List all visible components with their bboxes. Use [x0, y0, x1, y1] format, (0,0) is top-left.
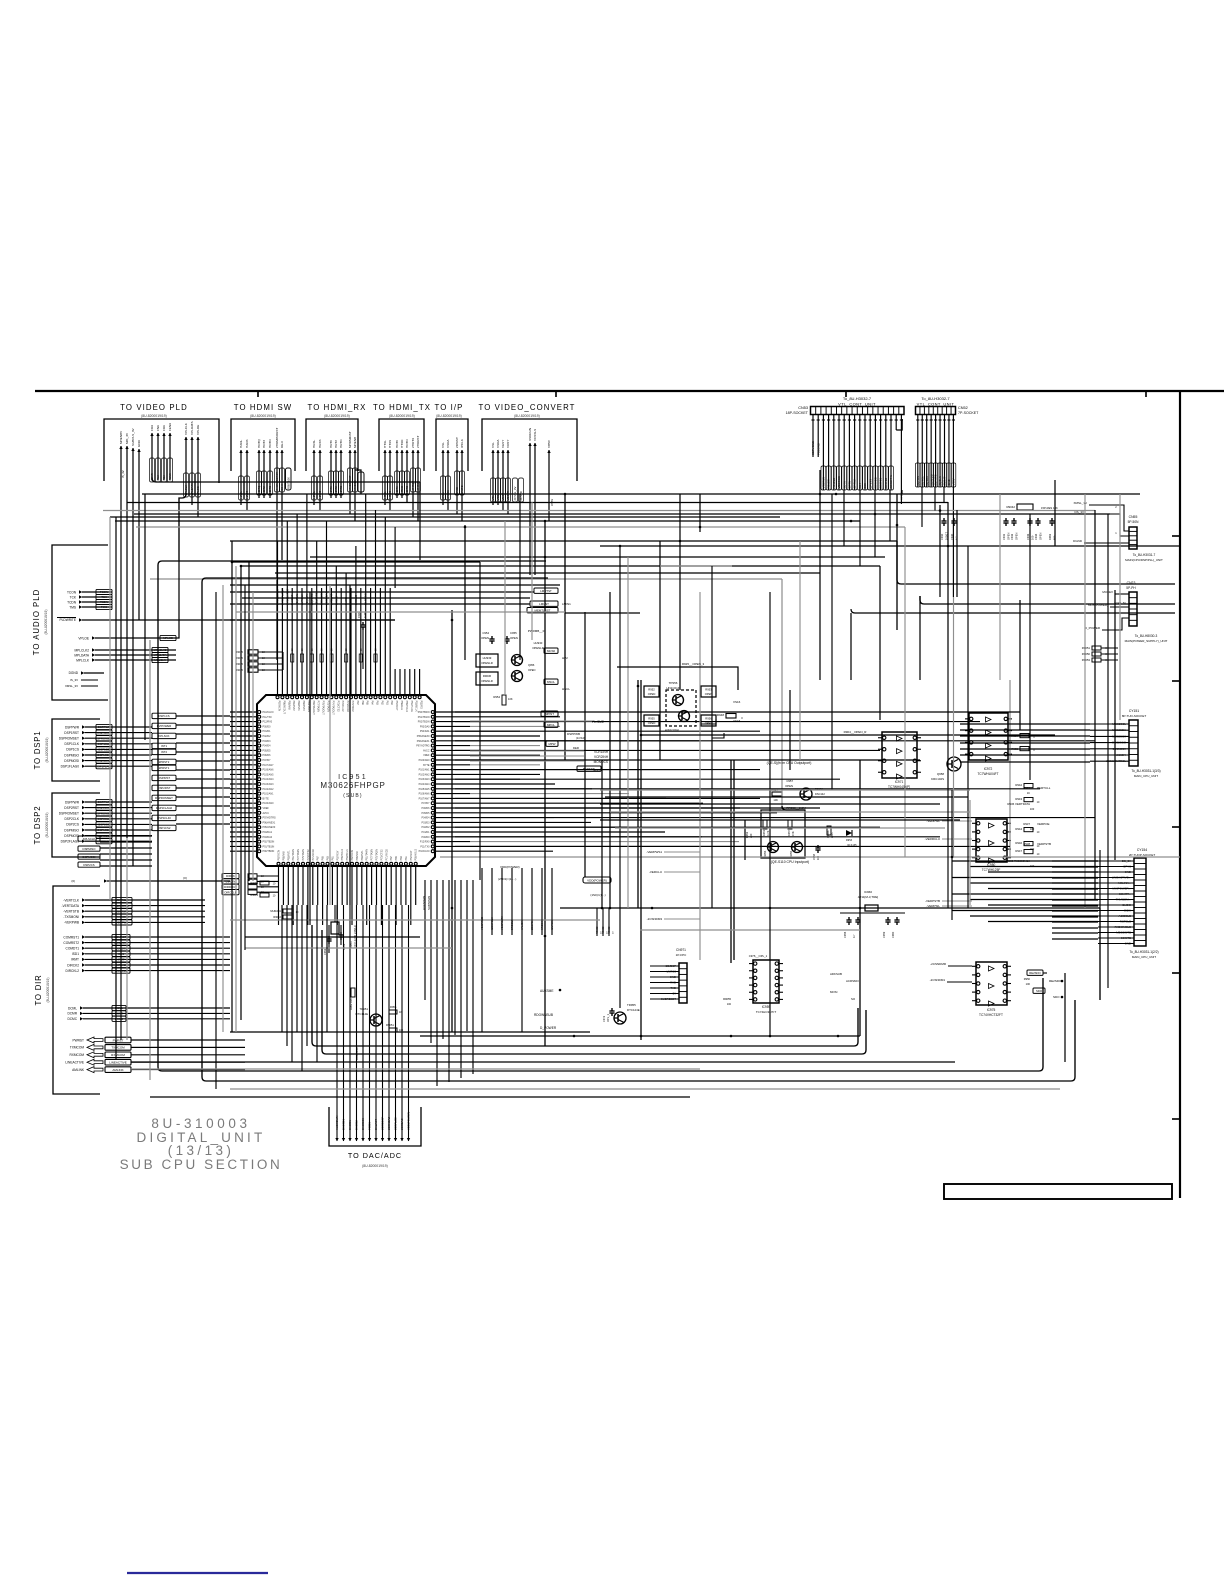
svg-text:VSDRUN: VSDRUN: [822, 477, 826, 489]
svg-text:DTC124E: DTC124E: [627, 1008, 640, 1012]
op-amp region main CPU IC951 M30626FHPGP body: [257, 695, 435, 866]
svg-text:1K: 1K: [1027, 791, 1030, 795]
svg-text:HRTD: HRTD: [339, 486, 343, 494]
wire rows TO DIR group1: [61, 897, 205, 925]
svg-text:HDTD: HDTD: [405, 439, 409, 448]
svg-text:P81/TA4IN: P81/TA4IN: [366, 849, 369, 861]
transistor block TP956 dashed: [644, 681, 867, 734]
transistor Q958: [931, 757, 961, 781]
wire bundle IC951 top to bus: [276, 588, 391, 669]
svg-text:P04/D4: P04/D4: [263, 745, 272, 748]
wire rows TO AUDIO PLD group1: [67, 589, 112, 609]
border right line: [1172, 391, 1180, 1198]
svg-text:2CSPB1: 2CSPB1: [879, 477, 883, 488]
svg-text:P96/ANEX1: P96/ANEX1: [263, 821, 276, 824]
svg-text:(E)CLK: (E)CLK: [938, 476, 942, 485]
svg-text:HTXS: HTXS: [388, 491, 392, 499]
svg-text:VCR2INH: VCR2INH: [594, 755, 609, 759]
svg-text:CN52: CN52: [958, 406, 968, 410]
resistor network R9042: [1006, 504, 1057, 510]
svg-text:VERTCLL: VERTCLL: [1037, 786, 1051, 790]
svg-text:TXMCOM: TXMCOM: [111, 1046, 125, 1050]
svg-text:VDD(POWER): VDD(POWER): [407, 1112, 411, 1130]
svg-text:(8U-8200019/19): (8U-8200019/19): [45, 813, 49, 838]
svg-text:P90/TB0IN: P90/TB0IN: [418, 711, 430, 714]
svg-text:RXMCOM: RXMCOM: [111, 1053, 125, 1057]
svg-text:10K: 10K: [508, 697, 513, 701]
svg-text:HADL: HADL: [239, 439, 243, 448]
svg-text:P72/CLK2: P72/CLK2: [341, 701, 344, 713]
svg-text:P82/INT0: P82/INT0: [302, 701, 305, 712]
svg-text:IS_3V: IS_3V: [121, 470, 125, 478]
svg-text:P02/D2: P02/D2: [263, 735, 272, 738]
svg-text:To_8U-H8030-3: To_8U-H8030-3: [1135, 634, 1158, 638]
svg-text:P107/AN7: P107/AN7: [263, 764, 275, 767]
svg-text:P60: P60: [390, 701, 393, 706]
svg-text:CPVSS: CPVSS: [868, 479, 872, 489]
svg-text:P07/D7: P07/D7: [263, 759, 272, 762]
svg-text:0.47: 0.47: [363, 612, 367, 618]
boxed label MSCL: [544, 679, 558, 684]
svg-text:To_8U-H3031-1(3/3): To_8U-H3031-1(3/3): [1131, 769, 1160, 773]
boxed label LMUTST: [527, 588, 558, 613]
svg-text:(8U-8200019/19): (8U-8200019/19): [389, 414, 415, 418]
svg-text:DSP1CLK: DSP1CLK: [64, 742, 79, 746]
svg-text:(0): (0): [183, 876, 187, 880]
svg-text:C955: C955: [510, 631, 517, 635]
svg-text:P106/AN6: P106/AN6: [419, 793, 431, 796]
svg-text:R9051: R9051: [1082, 646, 1091, 650]
wire rows VCR INH to chip: [470, 721, 592, 761]
svg-text:(E)DAT: (E)DAT: [943, 476, 947, 485]
svg-text:P02/D2: P02/D2: [422, 826, 431, 829]
bus rounded loop outer: [158, 561, 1043, 1071]
svg-text:DSP2RST: DSP2RST: [64, 806, 79, 810]
svg-text:BYTE: BYTE: [423, 764, 430, 767]
svg-text:DSP2FLAG0: DSP2FLAG0: [61, 840, 80, 844]
svg-text:P86/XCOUT: P86/XCOUT: [282, 701, 285, 715]
svg-text:P06/D6: P06/D6: [263, 754, 272, 757]
capacitor C966 0.47: [357, 611, 367, 669]
svg-text:P66: P66: [361, 701, 364, 706]
svg-text:MSCL: MSCL: [547, 680, 555, 684]
svg-text:(E)SDA: (E)SDA: [925, 476, 929, 486]
svg-text:DSP1RST: DSP1RST: [64, 731, 79, 735]
svg-text:R9036: R9036: [483, 674, 492, 678]
header label TO HDMI SW: [234, 403, 293, 418]
svg-text:-VEDPSTB: -VEDPSTB: [925, 899, 940, 903]
svg-text:4.7: 4.7: [852, 934, 856, 938]
wire bend VIDEO PLD C down: [179, 494, 198, 560]
svg-text:(E)AVDD: (E)AVDD: [929, 474, 933, 485]
svg-text:OPEN: OPEN: [528, 668, 535, 672]
svg-text:P55/HOLD: P55/HOLD: [405, 701, 408, 713]
svg-text:2CSOPTN: 2CSOPTN: [889, 475, 893, 488]
wire rows DGND group: [65, 671, 104, 688]
resistor array R9015 block: [235, 650, 283, 672]
svg-text:HDT0: HDT0: [395, 440, 399, 448]
long verticals extra left: [110, 517, 223, 1089]
svg-text:MDSPCLK: MDSPCLK: [490, 917, 494, 930]
svg-text:TCON: TCON: [100, 590, 108, 594]
hex buffer IC959 TC74HC367: [749, 954, 783, 1014]
svg-text:8P-TUO-SOCKET: 8P-TUO-SOCKET: [1122, 714, 1147, 718]
svg-text:HSCL: HSCL: [562, 687, 570, 691]
long verticals extra mid: [310, 494, 628, 1008]
svg-text:D_POWER: D_POWER: [1085, 626, 1101, 630]
wire bundle IC951 bottom to DAC/ADC: [335, 905, 411, 1141]
svg-text:R956: R956: [390, 1005, 397, 1009]
svg-text:Q956: Q956: [528, 663, 535, 667]
svg-text:HDTQ: HDTQ: [257, 485, 261, 494]
svg-text:DSPMISO: DSPMISO: [98, 753, 112, 757]
svg-text:To_8U-H3031-7: To_8U-H3031-7: [1133, 553, 1156, 557]
svg-text:HTXL: HTXL: [383, 440, 387, 448]
bracket TO DAC/ADC: [329, 1107, 421, 1168]
svg-text:P61: P61: [331, 856, 334, 861]
wire rows CN971: [650, 964, 679, 1001]
svg-text:OPEN: OPEN: [1006, 533, 1010, 540]
svg-text:1P-FPC: 1P-FPC: [676, 953, 688, 957]
wire bundle TO HDMI_RX signals A: [312, 439, 323, 510]
svg-text:P65: P65: [322, 856, 325, 861]
svg-text:IC975: IC975: [987, 1008, 996, 1012]
svg-text:P03/D3: P03/D3: [263, 740, 272, 743]
svg-text:R952 10K: R952 10K: [349, 998, 353, 1010]
svg-text:R9055: R9055: [723, 997, 731, 1001]
svg-text:FN6: FN6: [156, 425, 160, 431]
svg-text:200: 200: [1030, 847, 1035, 851]
svg-text:TO DSP1: TO DSP1: [33, 731, 42, 770]
svg-text:DA0SD1: DA0SD1: [342, 1119, 346, 1130]
svg-text:P52/RD: P52/RD: [420, 701, 423, 710]
pin row IC951 bottom pins: [277, 849, 418, 925]
svg-text:TO HDMI_RX: TO HDMI_RX: [308, 403, 367, 412]
svg-text:P104/AN4: P104/AN4: [263, 778, 275, 781]
svg-text:P80/TA4OUT: P80/TA4OUT: [312, 701, 315, 716]
boxed label MPCL: [544, 722, 558, 727]
wire bundle CN53 pins: [811, 415, 903, 505]
svg-text:(E)SCL: (E)SCL: [920, 476, 924, 486]
svg-text:MHENB: MHENB: [353, 480, 357, 490]
elbow wires upper right: [782, 541, 1175, 810]
svg-text:MAIN_CPU_UNIT: MAIN_CPU_UNIT: [1134, 774, 1158, 778]
svg-text:OPEN: OPEN: [648, 692, 656, 696]
svg-text:TO HDMI_TX: TO HDMI_TX: [373, 403, 431, 412]
svg-text:-VERTDATA: -VERTDATA: [61, 904, 79, 908]
svg-text:VPLOE: VPLOE: [196, 425, 200, 435]
svg-text:P85/NMI: P85/NMI: [282, 851, 285, 861]
svg-text:IC972: IC972: [984, 767, 993, 771]
svg-text:P62: P62: [380, 701, 383, 706]
connector CN971 1P-FPC: [676, 948, 688, 1003]
svg-text:P55/HOLD: P55/HOLD: [341, 849, 344, 861]
pin row IC951 top pins: [276, 669, 423, 715]
svg-text:P57/RDY: P57/RDY: [336, 850, 339, 860]
svg-text:C956: C956: [843, 931, 847, 938]
svg-text:C972: C972: [602, 1015, 606, 1022]
svg-text:SUB CPU SECTION: SUB CPU SECTION: [120, 1157, 283, 1172]
svg-text:DCMR: DCMR: [67, 1012, 77, 1016]
svg-text:P83/INT1: P83/INT1: [361, 850, 364, 861]
svg-text:-TXSMONI: -TXSMONI: [63, 915, 79, 919]
wire bundle TO HDMI_RX signals C: [348, 431, 358, 521]
svg-text:-VERTSTB: -VERTSTB: [63, 910, 79, 914]
svg-text:HRT2: HRT2: [334, 440, 338, 448]
labels near IC959 right: [723, 972, 859, 1006]
svg-text:P00/D0: P00/D0: [422, 836, 431, 839]
wire bundle TO VIDEO PLD signals A: [119, 427, 141, 907]
svg-text:OPEN: OPEN: [1014, 533, 1018, 540]
svg-text:OPENLR: OPENLR: [481, 679, 493, 683]
svg-text:AVCC: AVCC: [423, 749, 430, 752]
svg-text:IPSTB: IPSTB: [460, 485, 464, 493]
svg-text:DSPPWR: DSPPWR: [65, 800, 80, 804]
svg-text:PWRST: PWRST: [113, 1038, 124, 1042]
svg-text:DVPOWER: DVPOWER: [157, 724, 171, 728]
svg-text:DACMCK: DACMCK: [361, 1118, 365, 1130]
svg-text:FEN9: FEN9: [168, 423, 172, 431]
svg-text:P61: P61: [385, 701, 388, 706]
svg-text:VESY: VESY: [501, 440, 505, 448]
svg-text:2PRST2: 2PRST2: [159, 760, 170, 764]
svg-text:-VERTCLK: -VERTCLK: [63, 898, 80, 902]
svg-text:RE2SDO: RE2SDO: [1029, 971, 1041, 975]
svg-text:P65: P65: [366, 701, 369, 706]
svg-text:DSPROMSET: DSPROMSET: [59, 812, 79, 816]
svg-text:HTXD: HTXD: [400, 439, 404, 448]
svg-text:VDSPRMB: VDSPRMB: [480, 917, 484, 930]
svg-text:DSPMISO: DSPMISO: [64, 753, 79, 757]
svg-text:MPCL: MPCL: [547, 723, 555, 727]
svg-text:DACM2: DACM2: [355, 1120, 359, 1130]
svg-text:DGND: DGND: [69, 671, 79, 675]
svg-text:R9021: R9021: [250, 893, 258, 897]
bus horizontal lines bottom extra: [150, 920, 1060, 1097]
svg-text:P64: P64: [371, 701, 374, 706]
svg-text:INT1: INT1: [161, 744, 168, 748]
svg-text:P11/TX0: P11/TX0: [263, 716, 273, 719]
svg-text:PLDWRITE: PLDWRITE: [60, 618, 76, 622]
svg-text:DLSNDC: DLSNDC: [364, 593, 368, 605]
svg-text:R9058: R9058: [250, 881, 258, 885]
wire bundle TO HDMI_RX signals B: [329, 439, 344, 498]
svg-text:P67: P67: [390, 856, 393, 861]
wire bundle below chip left half: [282, 905, 327, 1071]
junction dots upper band: [231, 493, 950, 568]
svg-text:OPENLR: OPENLR: [532, 646, 544, 650]
long vertical wires right: [851, 480, 1115, 1062]
svg-text:DSPPWR: DSPPWR: [98, 725, 110, 729]
svg-text:(QE-S110 CPU Inputport): (QE-S110 CPU Inputport): [771, 860, 809, 864]
bracket TO DSP1: [33, 719, 100, 781]
svg-text:MPLCLK2: MPLCLK2: [74, 648, 89, 652]
svg-text:R9051: R9051: [386, 1023, 394, 1027]
svg-text:CN55: CN55: [1129, 515, 1138, 519]
svg-text:(8U-8200019/19): (8U-8200019/19): [436, 414, 462, 418]
svg-text:DIRCKLE: DIRCKLE: [224, 890, 236, 894]
bus rounded loop inner-left: [312, 925, 866, 1054]
svg-text:VEDPSTB: VEDPSTB: [1037, 842, 1051, 846]
svg-text:VCSSLS: VCSSLS: [533, 429, 537, 441]
resistor labels R9058 R9021: [250, 881, 276, 898]
svg-text:VDSPDATA: VDSPDATA: [500, 916, 504, 930]
svg-text:P03/D3: P03/D3: [422, 821, 431, 824]
svg-text:C940: C940: [950, 533, 954, 540]
svg-text:VPLDATA: VPLDATA: [190, 420, 194, 435]
svg-text:DSPPWR: DSPPWR: [65, 725, 80, 729]
svg-text:2YSDA_RET: 2YSDA_RET: [280, 588, 284, 605]
svg-text:P00/D0: P00/D0: [263, 725, 272, 728]
svg-text:R951: R951: [762, 829, 766, 836]
svg-text:PB1CS: PB1CS: [827, 479, 831, 488]
svg-text:C959: C959: [882, 931, 886, 938]
svg-text:AUXSME: AUXSME: [540, 989, 553, 993]
svg-text:DSP2CS: DSP2CS: [98, 823, 109, 827]
connector CY151 8P-TUO-SOCKET: [1122, 709, 1147, 766]
wire rows MPLCLK group: [74, 647, 176, 662]
labels upper mid LMIN: [562, 602, 571, 606]
svg-text:CN53: CN53: [798, 406, 808, 410]
svg-text:R957 10K: R957 10K: [287, 477, 291, 489]
svg-text:AUDSDWN: AUDSDWN: [335, 1116, 339, 1130]
svg-text:MPLCLK: MPLCLK: [154, 658, 165, 662]
svg-text:R925__OPEN_3: R925__OPEN_3: [682, 662, 705, 666]
svg-text:TO DSP2: TO DSP2: [33, 806, 42, 845]
labels right R931 group: [1006, 786, 1051, 868]
svg-text:(8U-8200019/19): (8U-8200019/19): [141, 414, 167, 418]
wire bundle TO HDMI_TX signals C: [411, 436, 421, 521]
svg-text:VPLOE: VPLOE: [78, 636, 89, 640]
svg-text:P91/TB1IN: P91/TB1IN: [263, 845, 275, 848]
svg-text:DSPMOSI: DSPMOSI: [83, 855, 96, 859]
svg-text:TP956: TP956: [669, 681, 678, 685]
connector CN53 18P-SOCKET: [786, 396, 904, 415]
svg-text:4.7K: 4.7K: [766, 830, 770, 836]
svg-text:P97/ADTRG: P97/ADTRG: [416, 745, 429, 748]
svg-text:P01/D1: P01/D1: [263, 730, 272, 733]
wire row DIR top 0: [71, 876, 230, 883]
svg-text:P95/ANEX0: P95/ANEX0: [263, 826, 276, 829]
CPU port filter circuit block: [745, 761, 857, 864]
svg-text:ZCSNDA2: ZCSNDA2: [387, 1117, 391, 1130]
bus horizontal lines mid band: [230, 566, 732, 613]
buffer IC976 TC74VHCT32: [930, 962, 1011, 1017]
wire rows CY151: [1090, 722, 1129, 763]
svg-text:CY151: CY151: [1129, 709, 1139, 713]
svg-text:DSPPWR: DSPPWR: [98, 800, 110, 804]
svg-text:VSL: VSL: [441, 442, 445, 448]
svg-text:R9050: R9050: [1082, 652, 1091, 656]
svg-text:AT11[M-3,TRE]: AT11[M-3,TRE]: [858, 895, 879, 899]
svg-text:ZCSALC3: ZCSALC3: [394, 1117, 398, 1130]
revision underline blue: [127, 1572, 268, 1574]
svg-text:P107/AN7: P107/AN7: [419, 797, 431, 800]
svg-text:DE-0: DE-0: [280, 484, 284, 491]
header label TO VIDEO PLD: [120, 403, 188, 418]
svg-text:INT2: INT2: [161, 750, 168, 754]
boxed labels DIRCK column: [222, 873, 279, 894]
svg-text:BRDCM: BRDCM: [510, 919, 514, 930]
svg-text:HRT0: HRT0: [329, 486, 333, 494]
svg-text:P93/DA0: P93/DA0: [420, 725, 430, 728]
svg-text:HTXD: HTXD: [400, 486, 404, 494]
svg-text:P94/DA1: P94/DA1: [263, 831, 273, 834]
svg-text:TC74HC367FT: TC74HC367FT: [756, 1010, 777, 1014]
wire bundle TO HDMI_TX signals B: [395, 439, 410, 502]
svg-text:(8U-8200019/19): (8U-8200019/19): [45, 738, 49, 763]
wire bundle TO VIDEO_CONVERT signals A: [491, 439, 511, 514]
svg-text:R938: R938: [1023, 842, 1030, 846]
svg-text:OPTN: OPTN: [848, 481, 852, 489]
svg-text:DSPMOSI: DSPMOSI: [98, 759, 111, 763]
svg-text:R962: R962: [1048, 533, 1052, 540]
svg-text:TO VIDEO PLD: TO VIDEO PLD: [120, 403, 188, 412]
svg-text:-2CSNDMR: -2CSNDMR: [930, 962, 947, 966]
svg-text:P100/AN0: P100/AN0: [419, 759, 431, 762]
svg-text:CN971: CN971: [676, 948, 686, 952]
resistor R942 R943 right of chip: [1015, 783, 1040, 856]
svg-text:DACM1: DACM1: [348, 1120, 352, 1130]
svg-text:P93/DA0: P93/DA0: [263, 836, 273, 839]
svg-text:P63: P63: [376, 701, 379, 706]
svg-text:C954: C954: [482, 631, 489, 635]
svg-text:KRC102S: KRC102S: [931, 777, 944, 781]
svg-text:GND: GND: [137, 439, 141, 447]
wire bundle chip right long extensions: [455, 712, 1095, 846]
svg-text:P94/DA1: P94/DA1: [420, 730, 430, 733]
svg-text:IS_3V: IS_3V: [70, 678, 78, 682]
svg-text:2CSPB2: 2CSPB2: [884, 477, 888, 488]
svg-text:FN6: FN6: [156, 475, 160, 481]
svg-text:P84/INT2: P84/INT2: [292, 701, 295, 712]
svg-text:VREF: VREF: [263, 807, 270, 810]
elbow wires top left of chip: [176, 560, 395, 638]
svg-text:VDESIGE: VDESIGE: [837, 476, 841, 489]
svg-text:(8U-8200019/19): (8U-8200019/19): [250, 414, 276, 418]
svg-text:HU939: HU939: [483, 656, 492, 660]
header label TO HDMI_RX: [308, 403, 367, 418]
wire bundle below chip right half: [480, 868, 554, 1032]
capacitor cluster near CN55: [940, 518, 1057, 540]
svg-text:OPL_1: OPL_1: [606, 1013, 610, 1022]
svg-text:AMLINK: AMLINK: [72, 1068, 85, 1072]
svg-text:DIRDIN: DIRDIN: [226, 880, 236, 884]
svg-text:P12/RX0: P12/RX0: [263, 721, 273, 724]
svg-text:MPLOE: MPLOE: [163, 636, 173, 640]
svg-text:C976__OPL_1: C976__OPL_1: [749, 954, 768, 958]
svg-text:IC959: IC959: [762, 1005, 771, 1009]
svg-text:D953: D953: [846, 839, 853, 842]
svg-text:R952: R952: [648, 688, 655, 692]
svg-text:DSPMISO: DSPMISO: [83, 847, 97, 851]
svg-text:DE-0: DE-0: [280, 441, 284, 448]
svg-text:MPLCLK: MPLCLK: [76, 658, 90, 662]
svg-text:TCON: TCON: [67, 590, 77, 594]
wire bundle bottom extra verticals: [425, 880, 473, 1086]
svg-text:(8U-8200019/19): (8U-8200019/19): [46, 978, 50, 1003]
svg-text:DCMC: DCMC: [67, 1017, 77, 1021]
svg-text:HRT2: HRT2: [334, 486, 338, 494]
svg-text:-VERRCLU: -VERRCLU: [925, 837, 940, 841]
svg-text:P87/XCIN: P87/XCIN: [278, 701, 281, 712]
wire bundle CN52 pins: [915, 415, 955, 598]
svg-text:DAISET: DAISET: [290, 594, 294, 605]
bracket TO HDMI SW: [231, 419, 295, 471]
svg-text:HADS: HADS: [245, 439, 249, 448]
long vertical wires right-center: [638, 470, 820, 1040]
svg-text:P04/D4: P04/D4: [422, 817, 431, 820]
